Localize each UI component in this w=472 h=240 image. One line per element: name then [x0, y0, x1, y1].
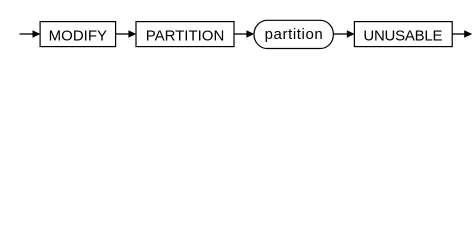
- svg-text:PARTITION: PARTITION: [146, 28, 225, 45]
- svg-text:MODIFY: MODIFY: [49, 28, 107, 45]
- svg-text:partition: partition: [265, 26, 324, 43]
- svg-text:UNUSABLE: UNUSABLE: [363, 28, 442, 45]
